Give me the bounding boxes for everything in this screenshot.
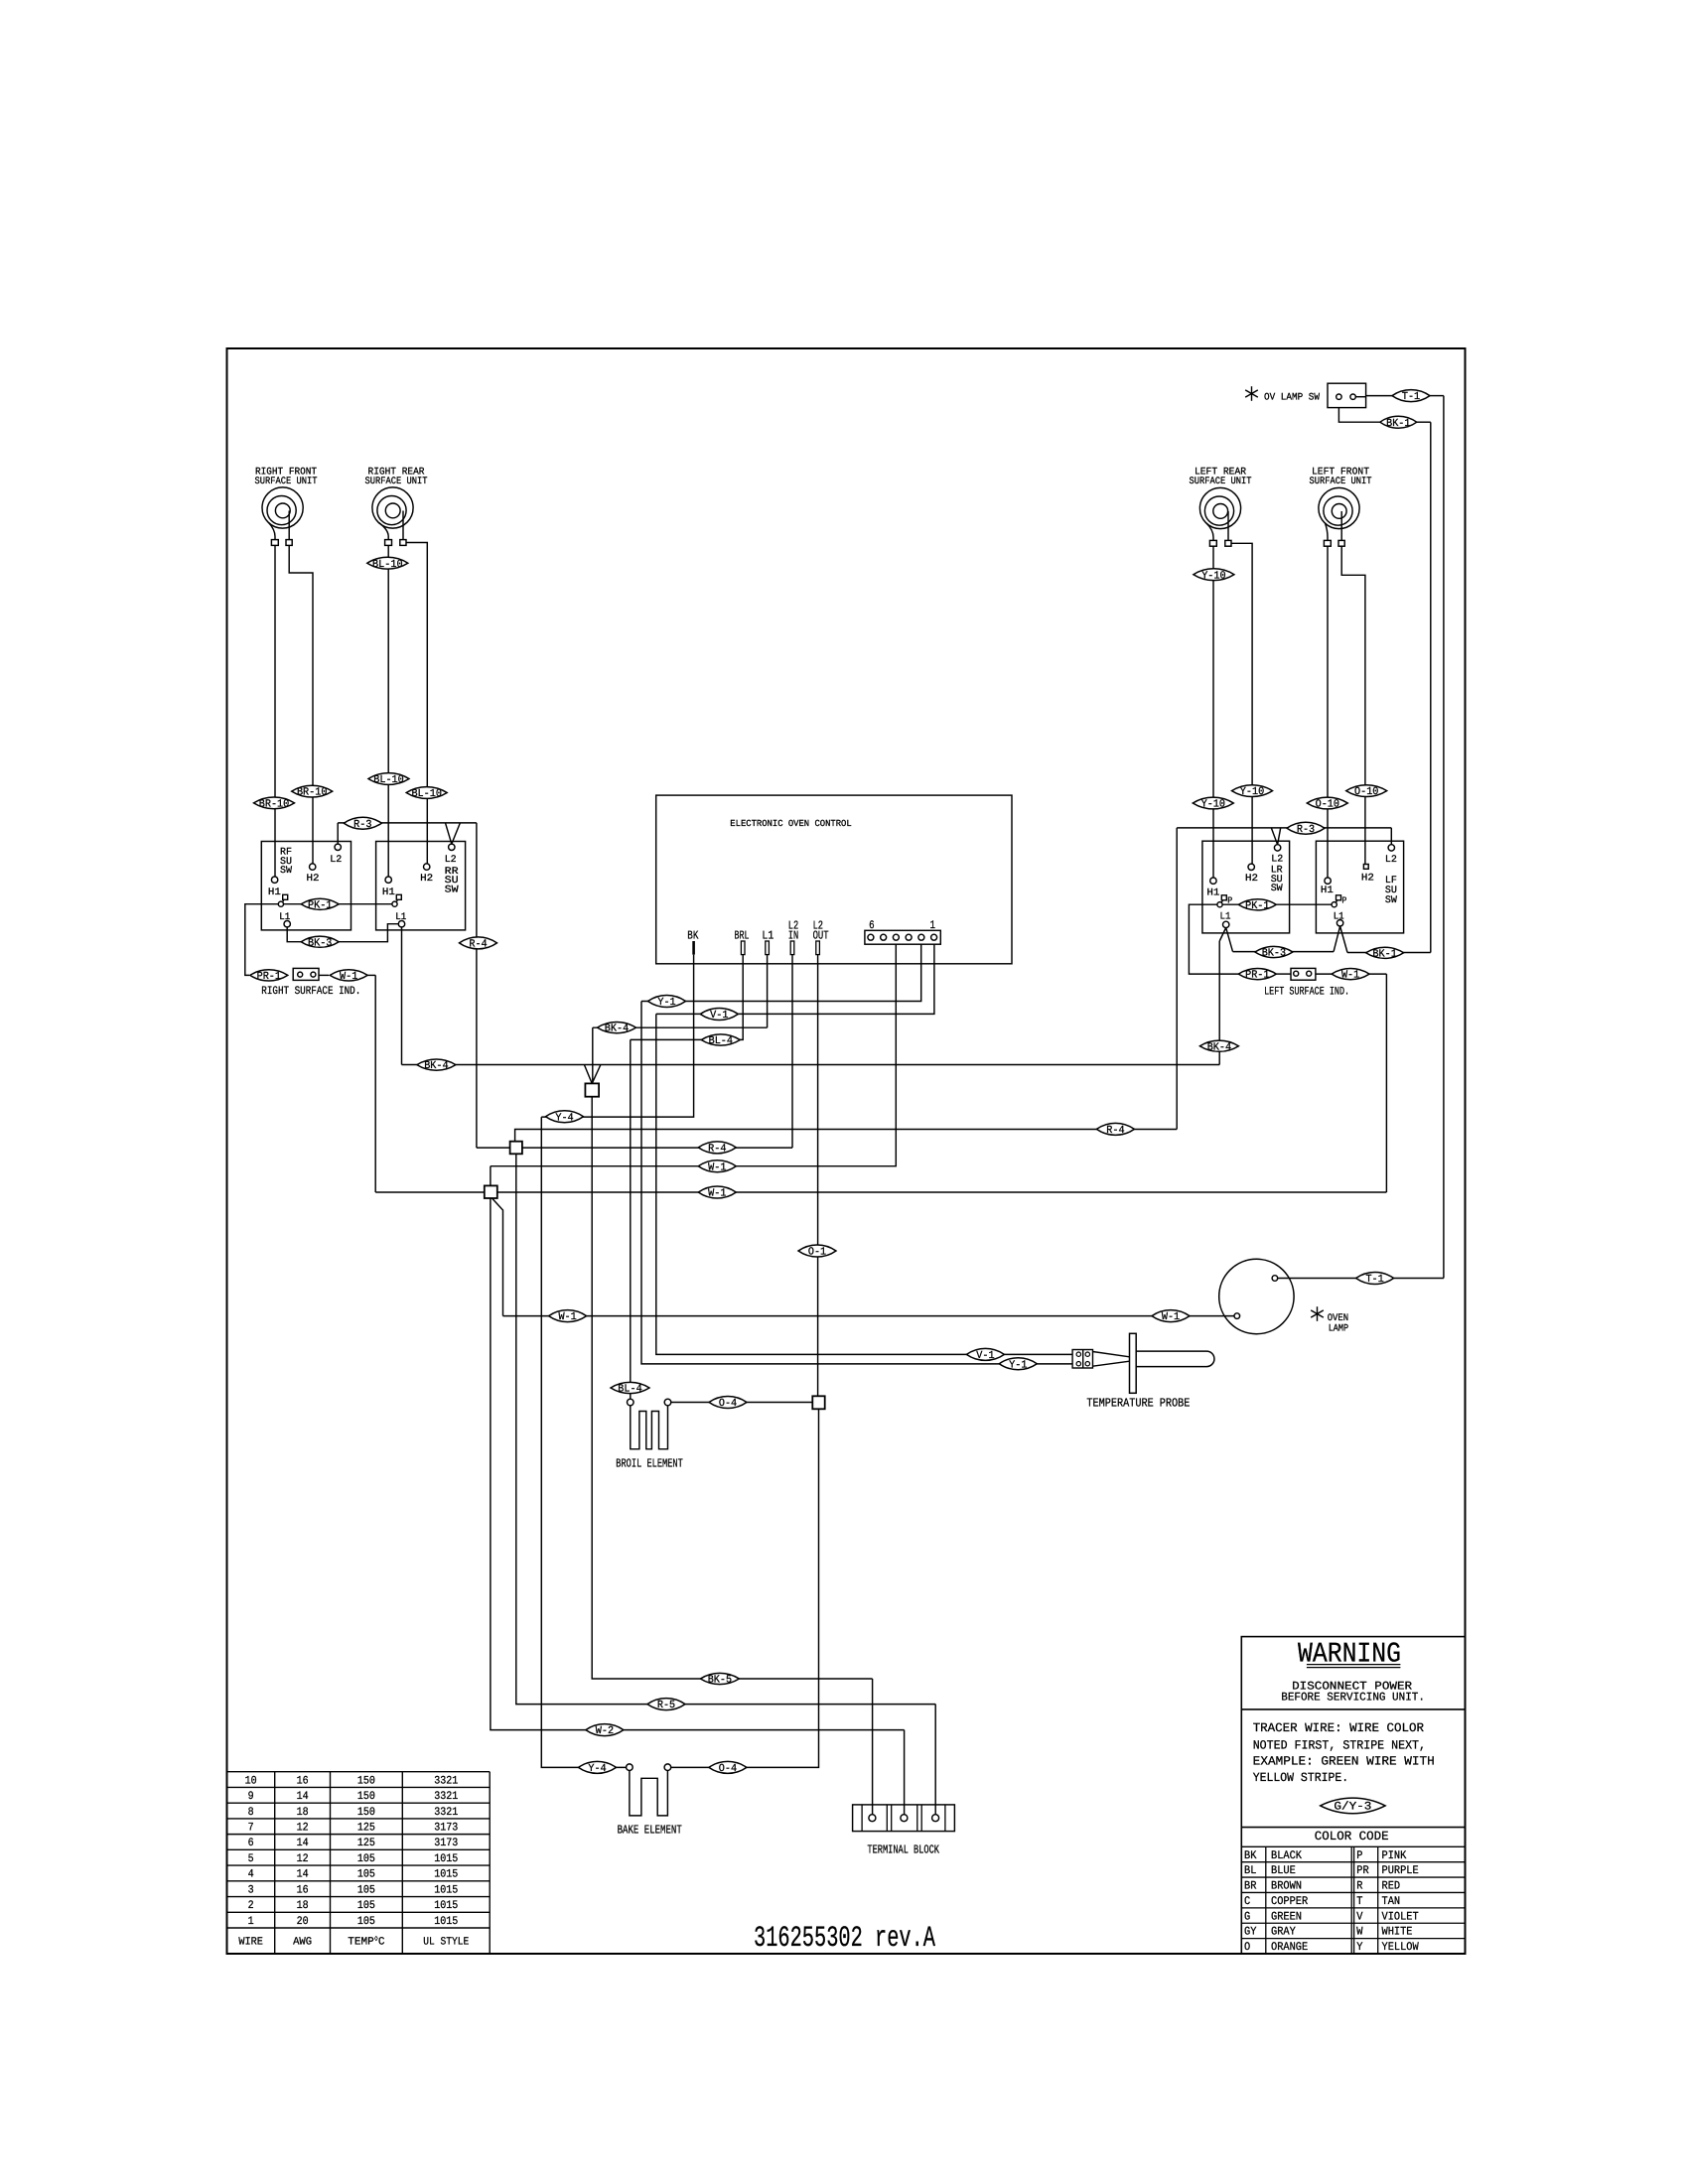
svg-text:RIGHT SURFACE IND.: RIGHT SURFACE IND.	[261, 986, 360, 998]
svg-text:125: 125	[357, 1822, 375, 1834]
svg-text:R-3: R-3	[1297, 824, 1315, 836]
svg-text:PR-1: PR-1	[1245, 970, 1269, 982]
svg-text:150: 150	[357, 1791, 375, 1803]
svg-text:COPPER: COPPER	[1271, 1895, 1308, 1908]
svg-text:H1: H1	[268, 887, 281, 898]
svg-text:BROWN: BROWN	[1271, 1880, 1302, 1893]
svg-text:V: V	[1356, 1910, 1362, 1923]
svg-text:105: 105	[357, 1900, 375, 1912]
svg-text:H2: H2	[307, 874, 320, 885]
svg-text:GREEN: GREEN	[1271, 1910, 1302, 1923]
svg-text:V-1: V-1	[976, 1350, 994, 1362]
svg-text:Y-10: Y-10	[1240, 786, 1264, 798]
svg-text:T-1: T-1	[1402, 391, 1420, 403]
svg-text:Y-1: Y-1	[1009, 1359, 1027, 1371]
svg-text:16: 16	[297, 1775, 309, 1787]
svg-text:BAKE ELEMENT: BAKE ELEMENT	[618, 1823, 682, 1837]
svg-text:R: R	[1356, 1880, 1362, 1893]
svg-text:SURFACE UNIT: SURFACE UNIT	[365, 477, 428, 487]
svg-text:UL STYLE: UL STYLE	[423, 1936, 469, 1948]
svg-text:3321: 3321	[434, 1775, 458, 1787]
svg-text:LEFT SURFACE IND.: LEFT SURFACE IND.	[1264, 987, 1349, 999]
svg-text:YELLOW STRIPE.: YELLOW STRIPE.	[1253, 1771, 1349, 1785]
svg-text:1015: 1015	[434, 1853, 458, 1865]
svg-text:O: O	[1244, 1941, 1250, 1954]
svg-text:BR-10: BR-10	[259, 799, 290, 811]
svg-text:L2: L2	[445, 855, 457, 866]
svg-text:WHITE: WHITE	[1382, 1926, 1413, 1939]
svg-text:BEFORE SERVICING UNIT.: BEFORE SERVICING UNIT.	[1281, 1692, 1425, 1705]
svg-text:L2: L2	[1271, 854, 1283, 865]
svg-text:1015: 1015	[434, 1900, 458, 1912]
svg-text:SURFACE UNIT: SURFACE UNIT	[255, 477, 318, 487]
svg-text:316255302 rev.A: 316255302 rev.A	[754, 1921, 935, 1955]
svg-text:NOTED FIRST, STRIPE NEXT,: NOTED FIRST, STRIPE NEXT,	[1253, 1739, 1426, 1753]
svg-text:BR: BR	[1244, 1880, 1256, 1893]
svg-text:PINK: PINK	[1382, 1849, 1407, 1862]
svg-text:OUT: OUT	[813, 929, 829, 943]
svg-text:W-2: W-2	[596, 1725, 614, 1737]
svg-text:R-4: R-4	[708, 1144, 726, 1156]
svg-text:16: 16	[297, 1884, 309, 1896]
svg-text:O-10: O-10	[1354, 786, 1378, 798]
svg-text:H1: H1	[1321, 886, 1334, 896]
svg-text:G: G	[1244, 1910, 1250, 1923]
svg-text:14: 14	[297, 1838, 309, 1849]
svg-text:SW: SW	[1271, 884, 1283, 894]
svg-text:L2: L2	[1385, 855, 1397, 866]
svg-text:W-1: W-1	[1162, 1311, 1180, 1323]
svg-text:2: 2	[248, 1900, 254, 1912]
svg-text:H2: H2	[1245, 874, 1258, 885]
svg-text:14: 14	[297, 1791, 309, 1803]
svg-text:WARNING: WARNING	[1298, 1638, 1401, 1671]
svg-text:SW: SW	[1385, 895, 1397, 906]
svg-text:T-1: T-1	[1365, 1274, 1383, 1286]
svg-text:RED: RED	[1382, 1880, 1401, 1893]
svg-text:BK-4: BK-4	[1207, 1041, 1231, 1053]
svg-text:1015: 1015	[434, 1884, 458, 1896]
svg-text:ELECTRONIC OVEN CONTROL: ELECTRONIC OVEN CONTROL	[730, 818, 851, 829]
svg-text:BK-4: BK-4	[605, 1024, 629, 1035]
svg-text:18: 18	[297, 1900, 309, 1912]
svg-text:W-1: W-1	[558, 1311, 576, 1323]
svg-text:4: 4	[248, 1869, 254, 1881]
svg-text:PURPLE: PURPLE	[1382, 1864, 1419, 1877]
svg-text:BL-10: BL-10	[411, 788, 442, 800]
svg-text:6: 6	[248, 1838, 254, 1849]
svg-text:BK-3: BK-3	[1262, 948, 1286, 960]
svg-text:P: P	[1356, 1849, 1362, 1862]
svg-text:3: 3	[248, 1884, 254, 1896]
svg-text:L2: L2	[330, 855, 342, 866]
svg-text:H2: H2	[420, 874, 433, 885]
svg-text:PR: PR	[1356, 1864, 1368, 1877]
svg-text:VIOLET: VIOLET	[1382, 1910, 1419, 1923]
svg-text:AWG: AWG	[293, 1936, 312, 1948]
svg-text:9: 9	[248, 1791, 254, 1803]
svg-text:1: 1	[248, 1916, 254, 1928]
svg-text:PR-1: PR-1	[257, 971, 281, 983]
svg-text:BR-10: BR-10	[297, 787, 328, 799]
svg-text:T: T	[1356, 1895, 1362, 1908]
svg-text:150: 150	[357, 1775, 375, 1787]
svg-text:Y-10: Y-10	[1201, 570, 1225, 582]
svg-text:BK: BK	[687, 929, 699, 943]
svg-text:V-1: V-1	[710, 1010, 728, 1022]
svg-text:O-1: O-1	[808, 1247, 826, 1259]
svg-text:C: C	[1244, 1895, 1250, 1908]
svg-text:BL-4: BL-4	[709, 1035, 733, 1047]
svg-text:TEMP◊C: TEMP◊C	[348, 1936, 385, 1949]
svg-text:GY: GY	[1244, 1926, 1256, 1939]
svg-text:105: 105	[357, 1884, 375, 1896]
svg-text:TEMPERATURE PROBE: TEMPERATURE PROBE	[1086, 1397, 1190, 1411]
svg-text:BROIL ELEMENT: BROIL ELEMENT	[616, 1456, 683, 1470]
svg-text:G/Y-3: G/Y-3	[1334, 1801, 1371, 1814]
svg-text:W-1: W-1	[708, 1188, 726, 1200]
svg-text:105: 105	[357, 1853, 375, 1865]
svg-text:BLUE: BLUE	[1271, 1864, 1296, 1877]
svg-text:12: 12	[297, 1853, 309, 1865]
svg-text:Y-4: Y-4	[588, 1763, 606, 1775]
svg-text:R-4: R-4	[469, 939, 487, 951]
svg-text:12: 12	[297, 1822, 309, 1834]
svg-text:BK: BK	[1244, 1849, 1256, 1862]
svg-text:3173: 3173	[434, 1838, 458, 1849]
svg-text:SW: SW	[445, 885, 459, 895]
svg-text:3173: 3173	[434, 1822, 458, 1834]
svg-text:COLOR CODE: COLOR CODE	[1315, 1830, 1389, 1843]
svg-text:7: 7	[248, 1822, 254, 1834]
svg-text:TERMINAL BLOCK: TERMINAL BLOCK	[867, 1843, 939, 1857]
svg-text:Y-10: Y-10	[1201, 799, 1225, 811]
svg-text:5: 5	[248, 1853, 254, 1865]
svg-text:H1: H1	[382, 887, 395, 898]
svg-text:6: 6	[869, 919, 875, 932]
svg-text:8: 8	[248, 1807, 254, 1819]
svg-text:10: 10	[245, 1775, 257, 1787]
svg-text:BK-3: BK-3	[308, 937, 332, 949]
svg-text:P: P	[1341, 896, 1346, 906]
svg-text:3321: 3321	[434, 1807, 458, 1819]
svg-text:20: 20	[297, 1916, 309, 1928]
svg-text:SW: SW	[280, 866, 292, 877]
svg-text:1: 1	[930, 919, 936, 932]
svg-text:WIRE: WIRE	[238, 1936, 263, 1948]
svg-text:H2: H2	[1361, 874, 1374, 885]
svg-text:Y: Y	[1356, 1941, 1362, 1954]
svg-text:EXAMPLE: GREEN WIRE WITH: EXAMPLE: GREEN WIRE WITH	[1253, 1755, 1435, 1769]
svg-text:BL-10: BL-10	[373, 774, 404, 786]
svg-text:ORANGE: ORANGE	[1271, 1941, 1308, 1954]
svg-text:TAN: TAN	[1382, 1895, 1401, 1908]
svg-text:W-1: W-1	[340, 971, 357, 983]
svg-text:SURFACE UNIT: SURFACE UNIT	[1190, 477, 1252, 487]
svg-text:LAMP: LAMP	[1329, 1324, 1349, 1335]
svg-text:R-4: R-4	[1106, 1125, 1124, 1137]
svg-text:BL-4: BL-4	[618, 1384, 641, 1396]
svg-text:105: 105	[357, 1869, 375, 1881]
svg-text:O-4: O-4	[719, 1398, 737, 1410]
svg-text:O-4: O-4	[719, 1763, 737, 1775]
svg-text:125: 125	[357, 1838, 375, 1849]
svg-text:1015: 1015	[434, 1869, 458, 1881]
svg-text:R-5: R-5	[657, 1700, 675, 1711]
svg-text:150: 150	[357, 1807, 375, 1819]
svg-text:BK-1: BK-1	[1372, 948, 1396, 960]
svg-text:18: 18	[297, 1807, 309, 1819]
svg-text:W-1: W-1	[1341, 970, 1359, 982]
svg-text:W: W	[1356, 1926, 1362, 1939]
svg-text:GRAY: GRAY	[1271, 1926, 1296, 1939]
svg-text:3321: 3321	[434, 1791, 458, 1803]
svg-text:OVEN: OVEN	[1328, 1313, 1349, 1324]
svg-text:OV LAMP SW: OV LAMP SW	[1264, 393, 1320, 404]
svg-text:O-10: O-10	[1316, 799, 1339, 811]
svg-text:R-3: R-3	[353, 819, 371, 831]
svg-text:YELLOW: YELLOW	[1382, 1941, 1419, 1954]
svg-text:TRACER WIRE: WIRE COLOR: TRACER WIRE: WIRE COLOR	[1253, 1721, 1425, 1735]
svg-text:PK-1: PK-1	[308, 899, 332, 911]
svg-text:BL-10: BL-10	[372, 559, 403, 571]
svg-text:Y-4: Y-4	[555, 1112, 573, 1124]
svg-text:BK-1: BK-1	[1386, 418, 1410, 430]
svg-text:14: 14	[297, 1869, 309, 1881]
svg-text:PK-1: PK-1	[1245, 900, 1269, 912]
svg-text:Y-1: Y-1	[657, 997, 675, 1009]
svg-text:BK-5: BK-5	[708, 1675, 732, 1687]
svg-text:BL: BL	[1244, 1864, 1256, 1877]
svg-text:BK-4: BK-4	[424, 1060, 448, 1072]
svg-text:W-1: W-1	[708, 1161, 726, 1173]
svg-text:1015: 1015	[434, 1916, 458, 1928]
svg-text:BLACK: BLACK	[1271, 1849, 1302, 1862]
svg-text:SURFACE UNIT: SURFACE UNIT	[1310, 477, 1372, 487]
svg-text:105: 105	[357, 1916, 375, 1928]
svg-text:H1: H1	[1206, 887, 1219, 898]
